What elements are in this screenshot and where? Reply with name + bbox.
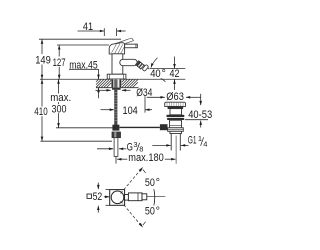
svg-text:410: 410	[34, 106, 47, 118]
svg-text:104: 104	[123, 105, 138, 117]
svg-text:300: 300	[52, 103, 67, 115]
svg-text:3: 3	[133, 140, 137, 149]
svg-text:Ø34: Ø34	[136, 87, 152, 99]
svg-text:127: 127	[53, 57, 66, 69]
svg-text:50: 50	[145, 206, 155, 218]
svg-text:52: 52	[93, 191, 103, 203]
svg-text:G1: G1	[188, 134, 197, 146]
svg-text:1: 1	[198, 134, 202, 143]
svg-text:40-53: 40-53	[188, 109, 212, 121]
svg-text:42: 42	[170, 68, 180, 80]
svg-text:°: °	[162, 68, 166, 80]
svg-text:max.: max.	[50, 92, 71, 104]
svg-text:149: 149	[35, 55, 51, 67]
svg-text:4: 4	[203, 139, 207, 148]
svg-text:max.180: max.180	[128, 152, 164, 164]
svg-text:°: °	[156, 177, 160, 189]
svg-text:40: 40	[150, 68, 161, 80]
svg-text:max.45: max.45	[69, 59, 98, 71]
svg-text:41: 41	[83, 21, 93, 33]
svg-text:Ø63: Ø63	[166, 91, 184, 103]
svg-text:50: 50	[145, 177, 155, 189]
svg-text:°: °	[156, 206, 160, 218]
